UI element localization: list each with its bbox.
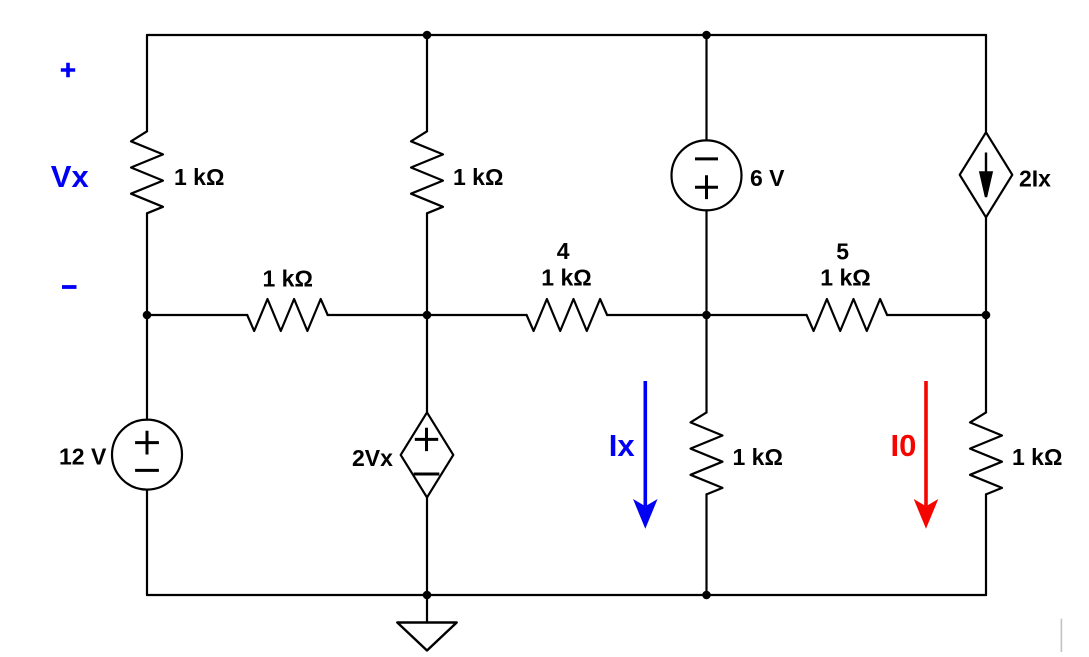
current arrow I0 (red) (914, 381, 939, 529)
wire column3 bottom (705, 494, 707, 595)
svg-text:1 kΩ: 1 kΩ (541, 265, 591, 291)
dependent source 2Vx diamond (401, 412, 454, 497)
2Ix source arrow (980, 153, 991, 198)
node top-3 (702, 31, 711, 40)
svg-text:1 kΩ: 1 kΩ (1012, 444, 1062, 470)
wire column3 middle (705, 210, 707, 315)
resistor column4 1 kΩ (970, 412, 1002, 494)
wire mid rail segment 2 (328, 314, 527, 316)
wire column4 bottom (985, 494, 987, 595)
label minus (blue) (62, 285, 77, 289)
svg-text:Vx: Vx (51, 159, 90, 194)
wire left column middle (146, 213, 148, 419)
svg-text:2Ix: 2Ix (1019, 165, 1051, 191)
2Vx source plus sign (415, 428, 438, 451)
svg-text:Ix: Ix (609, 428, 636, 463)
2Vx source minus sign (414, 473, 440, 476)
svg-text:1 kΩ: 1 kΩ (820, 265, 870, 291)
node top-2 (423, 31, 432, 40)
wire column2 upper (426, 35, 428, 131)
wire mid rail segment 4 (887, 314, 986, 316)
wire column4 middle (985, 217, 987, 315)
wire top rail (147, 34, 986, 36)
svg-text:1 kΩ: 1 kΩ (733, 444, 783, 470)
wire column4 upper (985, 35, 987, 132)
scrollbar artifact (1061, 619, 1063, 652)
label plus (blue) (61, 63, 75, 77)
dependent current source 2Ix diamond (960, 132, 1013, 217)
node mid-4 (982, 311, 991, 320)
svg-text:2Vx: 2Vx (352, 445, 393, 471)
wire bottom rail (147, 594, 986, 596)
resistor Vx branch 1 kΩ (131, 131, 163, 213)
resistor 5 1 kΩ (right) (807, 299, 888, 331)
wire mid rail segment 1 (147, 314, 247, 316)
6V source plus sign (695, 175, 718, 199)
ground (397, 623, 456, 651)
resistor column2 1 kΩ (411, 131, 443, 213)
svg-text:I0: I0 (891, 428, 917, 463)
svg-text:6 V: 6 V (750, 165, 785, 191)
wire column3 upper (705, 35, 707, 140)
wire left column lower (146, 490, 148, 595)
svg-text:1 kΩ: 1 kΩ (262, 266, 312, 292)
svg-text:4: 4 (557, 238, 570, 264)
svg-text:12 V: 12 V (59, 444, 107, 470)
12V source minus sign (135, 469, 159, 472)
wire mid rail segment 3 (607, 314, 807, 316)
node mid-1 (143, 311, 152, 320)
12V source plus sign (135, 431, 159, 455)
wire left column upper (146, 35, 148, 131)
resistor mid 1 kΩ (left) (247, 299, 328, 331)
svg-text:1 kΩ: 1 kΩ (174, 164, 224, 190)
wire column3 lower upper part (705, 315, 707, 412)
voltage source 6V circle (672, 140, 742, 210)
current arrow Ix (blue) (633, 381, 658, 529)
wire ground stub (426, 595, 428, 623)
node bottom-3 (702, 591, 711, 600)
node mid-2 (423, 311, 432, 320)
wire column2 lower (426, 497, 428, 595)
wire column4 lower upper part (985, 315, 987, 412)
node bottom-2 (423, 591, 432, 600)
resistor 4 1 kΩ (mid) (527, 299, 608, 331)
node mid-3 (702, 311, 711, 320)
svg-text:5: 5 (836, 239, 849, 265)
wire column2 middle (426, 213, 428, 412)
6V source minus sign (695, 157, 718, 160)
voltage source V 12V circle (112, 420, 182, 490)
svg-text:1 kΩ: 1 kΩ (453, 164, 503, 190)
resistor column3 1 kΩ (691, 412, 723, 494)
